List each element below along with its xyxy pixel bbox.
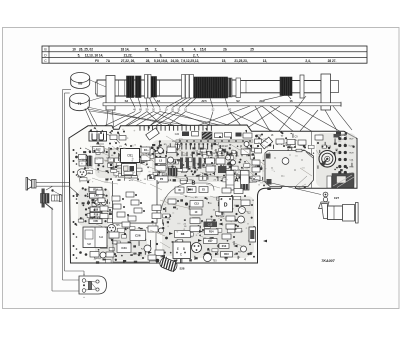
pot P18	[85, 207, 106, 212]
svg-text:C26: C26	[135, 234, 141, 238]
coil S5	[202, 132, 212, 140]
capacitor C81	[121, 149, 140, 163]
svg-text:28 27.: 28 27.	[328, 59, 337, 63]
right block small parts	[255, 134, 340, 153]
svg-text:R17: R17	[96, 147, 101, 151]
capacitor C27 clamp	[319, 192, 340, 208]
resistor R8	[175, 231, 191, 238]
resistor R14	[205, 229, 219, 235]
svg-text:P6: P6	[160, 177, 164, 181]
diode box D	[219, 197, 233, 213]
resistor R26 vertical	[249, 227, 256, 242]
svg-text:C24: C24	[121, 246, 127, 250]
svg-text:T05: T05	[115, 224, 120, 227]
wiring traces	[96, 143, 312, 236]
svg-text:15B: 15B	[93, 220, 98, 223]
resistor row 2	[177, 152, 247, 156]
svg-text:E: E	[177, 247, 179, 251]
transistor pair	[92, 200, 111, 205]
resistor R18	[85, 212, 106, 217]
coil L40	[84, 193, 107, 198]
IF module C21	[89, 129, 120, 144]
board shading	[78, 129, 353, 259]
driver transformer	[226, 171, 234, 191]
cluster right of C81	[141, 147, 177, 182]
board wire mesh	[86, 136, 320, 256]
coil S4 winding	[151, 77, 156, 98]
transistor T05	[108, 224, 121, 233]
resistor row 1	[177, 143, 229, 149]
resistor R13	[219, 244, 229, 249]
svg-text:2,4,: 2,4,	[305, 59, 310, 63]
svg-text:9,: 9,	[160, 53, 163, 57]
svg-text:13,: 13,	[263, 59, 268, 63]
loudspeaker	[26, 178, 36, 191]
svg-text:28,: 28,	[146, 59, 151, 63]
output stage dark area	[327, 174, 354, 189]
svg-text:A: A	[235, 178, 239, 184]
leader lines from rod coils	[130, 96, 291, 108]
trimmer knob	[331, 81, 339, 93]
svg-text:7A: 7A	[106, 59, 111, 63]
svg-text:S3: S3	[125, 99, 129, 103]
dial cord lines	[85, 80, 232, 194]
electrolytic bars	[180, 158, 202, 169]
tuning pulley T1	[70, 93, 90, 110]
battery connector plug	[79, 273, 107, 299]
coil S2B	[156, 257, 185, 273]
capacitor cluster left	[75, 150, 103, 166]
bracket drop lines	[107, 110, 114, 128]
svg-text:SM: SM	[87, 243, 91, 246]
svg-text:24,30,: 24,30,	[171, 59, 180, 63]
capacitor C15	[204, 222, 218, 228]
coil former ring	[145, 75, 152, 99]
potentiometer P16	[125, 178, 138, 185]
svg-text:2, 7,: 2, 7,	[193, 53, 199, 57]
board terminal ticks	[140, 125, 212, 130]
svg-text:18 14,: 18 14,	[121, 48, 130, 52]
svg-text:S2: S2	[236, 99, 240, 103]
svg-text:21,25,23,: 21,25,23,	[234, 59, 247, 63]
coil S1 winding (MW)	[194, 77, 232, 98]
flange ring	[300, 75, 304, 98]
svg-text:R8: R8	[181, 232, 185, 236]
coil L5B	[84, 219, 106, 224]
component texture field	[78, 131, 355, 264]
bottom band extra parts	[106, 232, 235, 260]
transistor T2	[192, 243, 202, 253]
step ring	[236, 78, 241, 98]
svg-text:26, 25, 02: 26, 25, 02	[79, 48, 93, 52]
former rings mid	[182, 75, 194, 99]
svg-text:T1: T1	[78, 102, 82, 106]
svg-text:S4: S4	[157, 99, 161, 103]
resistor R10	[221, 252, 233, 258]
bus bar	[176, 140, 253, 143]
transistor box E	[173, 242, 191, 259]
tuning pulley M9	[71, 73, 90, 89]
alignment table	[42, 46, 367, 63]
leader arrowheads	[93, 126, 248, 147]
svg-text:5,: 5,	[78, 53, 81, 57]
svg-text:15,6: 15,6	[200, 48, 206, 52]
svg-text:25,: 25,	[145, 48, 150, 52]
transistor T03	[204, 253, 218, 263]
capacitor C10	[236, 133, 248, 138]
transistor T8	[241, 246, 250, 255]
arrow to L12	[70, 187, 80, 196]
resistor R17	[93, 147, 105, 153]
svg-text:R10: R10	[224, 253, 229, 256]
svg-text:4: 4	[244, 258, 246, 262]
svg-text:16: 16	[289, 99, 293, 103]
svg-text:15,: 15,	[222, 59, 227, 63]
svg-text:M2: M2	[228, 109, 232, 112]
svg-text:12,13, 16 14,: 12,13, 16 14,	[85, 53, 104, 57]
scan smudge	[78, 133, 356, 260]
speaker wires	[36, 182, 70, 186]
resistor R17b	[204, 239, 218, 244]
svg-text:7,9,12,25,12,: 7,9,12,25,12,	[181, 59, 200, 63]
coil S3 winding second	[136, 76, 142, 98]
cells D5 row	[175, 187, 208, 194]
coil S2 winding (LW)	[280, 77, 292, 96]
bottom band arrows	[148, 188, 267, 255]
tuning capacitor plate	[265, 149, 314, 186]
svg-text:C13: C13	[194, 203, 199, 206]
transistor T12	[235, 207, 251, 224]
battery compartment	[113, 180, 215, 223]
svg-text:10: 10	[72, 48, 76, 52]
svg-text:27,22, 26,: 27,22, 26,	[121, 59, 135, 63]
svg-text:T12: T12	[246, 212, 251, 215]
extra small parts top band	[85, 130, 132, 151]
svg-text:AF5: AF5	[201, 99, 207, 103]
svg-text:21,22,: 21,22,	[124, 53, 133, 57]
svg-text:D: D	[224, 203, 228, 209]
mid rail line	[176, 176, 253, 178]
left column extra	[76, 190, 145, 227]
board internal divider	[311, 132, 313, 189]
wire loop left side	[52, 90, 84, 292]
svg-text:R13: R13	[222, 245, 227, 248]
svg-text:F0: F0	[95, 59, 99, 63]
mid column parts	[241, 133, 260, 181]
output transformer	[241, 171, 250, 191]
right block top dark mark	[336, 132, 341, 136]
transformer SM	[83, 227, 107, 248]
capacitor C24	[117, 243, 151, 256]
svg-text:B: B	[183, 247, 185, 251]
svg-text:C40: C40	[94, 195, 99, 198]
svg-text:2b: 2b	[223, 48, 227, 52]
drive drum assembly	[322, 203, 359, 224]
leader to C27	[253, 178, 321, 194]
diode rotated right	[260, 137, 272, 149]
table row C values	[95, 59, 336, 63]
diode D1 (rotated)	[146, 128, 160, 140]
svg-text:M9: M9	[78, 82, 82, 86]
svg-text:R17: R17	[208, 240, 213, 243]
svg-text:S14: S14	[99, 236, 104, 239]
svg-text:18 20 22: 18 20 22	[218, 145, 228, 148]
svg-text:C27: C27	[334, 196, 340, 200]
leader lines rod to board	[95, 96, 352, 152]
right block top parts	[258, 134, 323, 149]
transistor T9	[77, 169, 91, 177]
earphone jack	[41, 186, 63, 209]
capacitor C13	[190, 201, 203, 208]
right mounting bracket	[321, 74, 331, 110]
svg-text:7KA007: 7KA007	[321, 259, 335, 263]
svg-text:C20: C20	[175, 134, 180, 136]
lower compartment outline	[113, 223, 156, 262]
lower left small parts	[74, 223, 106, 258]
svg-text:T03: T03	[212, 260, 217, 263]
extra parts right of bus	[192, 132, 233, 140]
support rod	[103, 102, 341, 107]
mid lower extra parts	[152, 188, 253, 232]
svg-text:B: B	[192, 181, 196, 187]
module P15	[122, 164, 137, 176]
svg-text:C 26: C 26	[326, 145, 332, 149]
svg-text:S28: S28	[180, 267, 185, 271]
table row B values	[72, 48, 254, 52]
label C26	[322, 145, 332, 149]
table row labels B D C	[44, 48, 47, 63]
rod section lines	[119, 80, 247, 96]
left mounting bracket	[106, 76, 115, 111]
mid sparse parts	[148, 221, 168, 256]
svg-text:2,: 2,	[155, 48, 158, 52]
svg-text:25: 25	[250, 48, 254, 52]
rod terminal labels	[133, 109, 232, 112]
right block top labels	[257, 135, 298, 139]
svg-text:4,: 4,	[194, 48, 197, 52]
table row D values	[78, 53, 200, 57]
dial drum	[319, 151, 336, 168]
coil S3 winding	[127, 76, 135, 98]
rod coil labels	[125, 99, 293, 103]
svg-text:R14: R14	[209, 231, 214, 234]
resistor R19	[84, 187, 106, 192]
svg-text:C15: C15	[208, 224, 213, 227]
svg-text:8,: 8,	[182, 48, 185, 52]
rod main cylinder	[95, 80, 321, 96]
transistor pin column	[338, 137, 354, 175]
capacitor C10b	[185, 202, 202, 215]
svg-text:AE2: AE2	[259, 99, 265, 103]
left edge solder dots	[73, 149, 78, 259]
mid small parts	[206, 155, 236, 173]
printed circuit board outline	[69, 125, 357, 263]
capacitor C26b	[130, 231, 146, 241]
small parts between C81	[108, 147, 120, 168]
capacitor C20	[175, 132, 189, 137]
svg-text:5,19,19,8,: 5,19,19,8,	[154, 59, 168, 63]
